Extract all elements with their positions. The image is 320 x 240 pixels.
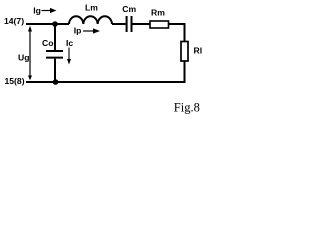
svg-text:Co: Co — [42, 38, 53, 48]
resistor Rl — [181, 42, 188, 62]
svg-text:14(7): 14(7) — [4, 16, 24, 26]
wire: top rail from terminal 14(7) to inductor Lm — [26, 23, 69, 25]
wire: inductor Lm to capacitor Cm — [112, 23, 126, 25]
resistor Rm — [150, 21, 169, 28]
svg-text:Ig: Ig — [33, 5, 41, 15]
wire: resistor Rm to top-right corner and down to resistor Rl — [169, 24, 185, 42]
wire: node A down to capacitor Co — [54, 24, 56, 50]
svg-text:Ic: Ic — [66, 38, 73, 48]
capacitor Co — [46, 51, 63, 58]
wire: capacitor Cm to resistor Rm — [133, 23, 151, 25]
svg-text:Cm: Cm — [122, 4, 136, 14]
svg-text:Rm: Rm — [151, 7, 165, 17]
svg-text:Ip: Ip — [74, 25, 82, 35]
node B (bottom junction) — [53, 79, 59, 85]
capacitor Cm — [127, 16, 132, 32]
svg-text:15(8): 15(8) — [5, 76, 25, 86]
node A (top junction) — [52, 21, 58, 27]
wire: bottom rail from terminal 15(8) to bottom-right corner — [26, 81, 186, 83]
svg-text:Fig.8: Fig.8 — [174, 101, 200, 115]
current arrow Ig — [42, 8, 57, 13]
voltage arrow Ug (double-headed) — [28, 26, 32, 80]
inductor Lm — [69, 16, 112, 24]
svg-text:Rl: Rl — [194, 46, 203, 56]
svg-text:Ug: Ug — [18, 52, 29, 62]
current arrow Ic — [67, 48, 71, 65]
wire: resistor Rl down to bottom-right corner — [184, 61, 185, 82]
svg-text:Lm: Lm — [85, 3, 98, 13]
current arrow Ip — [83, 28, 100, 33]
wire: capacitor Co down to node B — [54, 59, 56, 82]
